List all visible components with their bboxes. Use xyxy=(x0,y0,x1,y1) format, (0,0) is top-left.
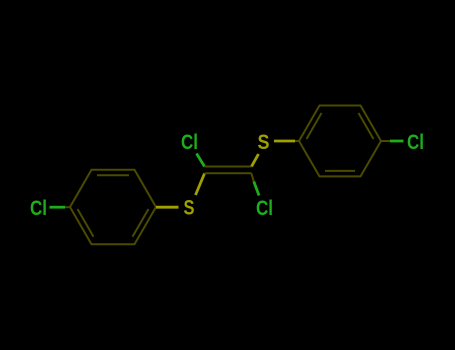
svg-text:Cl: Cl xyxy=(181,131,198,154)
bond ring1-S1 (bright) xyxy=(156,206,179,209)
ring2 inner double bond (upper-right edge) xyxy=(359,113,374,139)
bond C2-Cl3 (dark part) xyxy=(251,173,254,181)
bond ring2-Cl4 (dark half) xyxy=(381,140,390,142)
ring1 inner double bond (lower-right edge) xyxy=(133,209,149,237)
benzene ring 1 (left, hexagon outline) xyxy=(70,170,156,244)
svg-text:Cl: Cl xyxy=(30,197,47,220)
bond C1=C2 main line xyxy=(205,166,252,168)
bond C1=C2 inner line xyxy=(205,172,252,174)
ring1 inner double bond (lower-left edge) xyxy=(78,209,94,237)
bond S2-ring2 (dark half) xyxy=(295,140,299,142)
bond Cl1-ring1 (dark half) xyxy=(65,206,70,208)
ring2 inner double bond (upper-left edge) xyxy=(307,113,322,139)
bond C1-Cl2 (green diagonal) xyxy=(197,154,205,167)
ring1 inner double bond (top edge) xyxy=(97,174,129,176)
bond C2-S2 (bright diagonal) xyxy=(252,154,259,167)
bond Cl1-ring1 (green half) xyxy=(50,206,66,209)
svg-text:S: S xyxy=(184,197,195,220)
svg-text:S: S xyxy=(258,131,270,154)
bond S1-C1 (bright diagonal) xyxy=(196,174,205,196)
bond S2-ring2 (bright half) xyxy=(274,140,295,143)
svg-text:Cl: Cl xyxy=(407,131,424,154)
bond ring2-Cl4 (green half) xyxy=(390,140,404,143)
benzene ring 2 (right, hexagon outline) xyxy=(299,106,381,177)
svg-text:Cl: Cl xyxy=(256,197,273,220)
bond C2-Cl3 (green part) xyxy=(254,182,259,196)
ring2 inner double bond (bottom edge) xyxy=(325,170,355,172)
